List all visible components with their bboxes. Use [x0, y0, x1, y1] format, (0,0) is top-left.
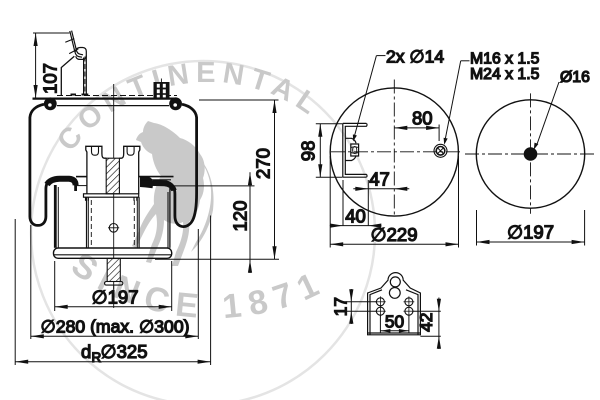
- bead plate lower lip: [57, 105, 169, 107]
- dim 98: [316, 124, 343, 178]
- bracket hatch ticks: [65, 39, 74, 43]
- watermark CONTINENTAL arc text: [71, 82, 308, 153]
- svg-text:50: 50: [385, 311, 404, 331]
- svg-text:17: 17: [330, 297, 350, 316]
- svg-text:∅280 (max. ∅300): ∅280 (max. ∅300): [41, 317, 190, 337]
- bracket bolt: [351, 144, 359, 156]
- svg-text:∅229: ∅229: [371, 224, 418, 245]
- bracket outline: [368, 273, 421, 335]
- svg-text:42: 42: [416, 313, 436, 332]
- piston skirt left wall: [54, 185, 57, 248]
- svg-text:98: 98: [297, 141, 318, 162]
- bellows fold band left: [47, 179, 76, 186]
- dim dia229: [330, 156, 458, 248]
- centerlines: [331, 151, 462, 153]
- bracket top view: [343, 123, 367, 177]
- svg-text:∅325: ∅325: [101, 341, 148, 362]
- bellows outline right: [153, 104, 197, 226]
- bracket house: [61, 56, 74, 95]
- piston castle: [84, 146, 140, 201]
- svg-text:2x ∅14: 2x ∅14: [386, 46, 444, 66]
- piston lip edges: [76, 176, 87, 178]
- bracket feet: [71, 94, 77, 96]
- castle base flange: [84, 194, 139, 197]
- piston skirt right wall: [169, 188, 171, 248]
- dim 107: [33, 33, 70, 98]
- center hole dia16: [524, 147, 538, 161]
- air valve fitting: [154, 79, 170, 99]
- svg-text:80: 80: [412, 108, 433, 129]
- svg-text:∅197: ∅197: [92, 287, 139, 308]
- M16 port: [434, 144, 447, 157]
- svg-text:M16 x 1.5: M16 x 1.5: [470, 51, 540, 68]
- circle dia197 piston: [476, 100, 584, 208]
- svg-text:M24 x 1.5: M24 x 1.5: [470, 66, 540, 83]
- svg-text:47: 47: [369, 169, 390, 190]
- piston boss tube: [86, 197, 88, 248]
- label M16/M24: [444, 61, 470, 145]
- svg-text:Ø16: Ø16: [560, 69, 590, 86]
- dim 50: [380, 315, 409, 333]
- piston vent hole: [109, 224, 118, 233]
- watermark group: [31, 57, 375, 400]
- piston base plate: [54, 248, 172, 258]
- dim dR325: [15, 216, 210, 366]
- dim 120: [170, 172, 255, 273]
- bellows fold band right: [150, 183, 174, 190]
- svg-text:d: d: [81, 341, 91, 362]
- dim 42: [412, 298, 441, 350]
- bead plate top line: [33, 97, 178, 99]
- dim 40: [330, 180, 382, 228]
- bellows fold corner right: [140, 177, 153, 189]
- circle dia229 plate: [330, 88, 458, 216]
- label dia16: [534, 82, 559, 150]
- bracket loop: [76, 48, 87, 60]
- bracket column: [83, 58, 85, 96]
- dim 47: [353, 187, 409, 191]
- bracket holes: [375, 296, 414, 316]
- dim 80: [394, 125, 439, 142]
- piston hidden bore dashes: [90, 200, 92, 246]
- castle bolt hatched: [106, 158, 119, 194]
- bellows outline left: [30, 104, 76, 225]
- svg-text:∅197: ∅197: [507, 222, 554, 243]
- dim dia280 max300: [31, 225, 199, 339]
- bottom bolt hatched: [107, 259, 120, 282]
- centerline main: [113, 84, 115, 308]
- castle inner walls: [92, 146, 99, 155]
- bead plate hidden dashes: [57, 95, 177, 97]
- svg-text:107: 107: [40, 63, 61, 94]
- dim dia197 left: [55, 261, 172, 311]
- left bead roll: [44, 97, 57, 110]
- centerlines: [465, 153, 596, 155]
- svg-text:40: 40: [345, 206, 366, 227]
- label 2x dia14: [353, 56, 386, 142]
- bracket tongue: [345, 138, 356, 143]
- dim 17: [346, 289, 378, 324]
- dim dia197 right: [477, 210, 585, 246]
- dim 270: [155, 100, 279, 259]
- right bead roll: [169, 97, 182, 110]
- watermark horse: [132, 121, 214, 266]
- top bracket strap: [61, 31, 88, 96]
- bracket top circles: [390, 277, 400, 287]
- watermark SINCE 1871 arc text: [70, 270, 321, 318]
- svg-text:120: 120: [230, 201, 251, 232]
- watermark ring: [31, 61, 375, 400]
- svg-text:270: 270: [253, 148, 274, 179]
